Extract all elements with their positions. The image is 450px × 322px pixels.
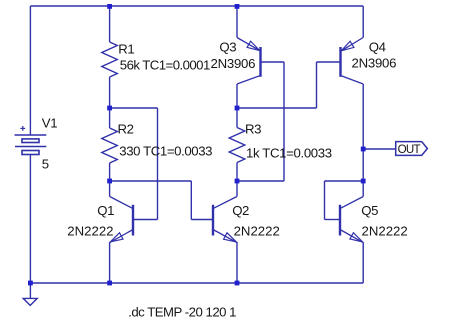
- battery plus sign: [20, 127, 25, 129]
- wire Q3 emitter stem: [236, 6, 238, 38]
- wire top rail: [30, 5, 363, 7]
- wire ground stem: [29, 283, 31, 298]
- wire Q2 emitter: [236, 243, 238, 283]
- svg-text:2N2222: 2N2222: [67, 224, 113, 239]
- node R3-bottom: [235, 179, 240, 184]
- wire node R1-R2 to Q1 base riser: [110, 107, 158, 109]
- svg-text:Q5: Q5: [361, 203, 378, 218]
- resistor R2: [109, 108, 111, 128]
- wire Q1 emitter: [109, 243, 111, 283]
- svg-text:Q4: Q4: [369, 39, 386, 54]
- svg-text:1k TC1=0.0033: 1k TC1=0.0033: [246, 146, 332, 161]
- ground: [23, 298, 37, 305]
- svg-text:R2: R2: [118, 122, 134, 137]
- node Q2e-rail: [235, 281, 240, 286]
- wire Q1 collector: [109, 181, 111, 197]
- wire Q4 collector: [362, 84, 364, 149]
- wire Q5 collector: [362, 181, 364, 197]
- wire Q5 emitter: [362, 243, 364, 283]
- node Q1e-rail: [107, 281, 112, 286]
- wire bottom rail: [30, 282, 363, 284]
- svg-text:OUT: OUT: [398, 143, 421, 156]
- node top-R1: [107, 4, 112, 9]
- svg-text:Q1: Q1: [97, 203, 114, 218]
- battery V1: [15, 134, 47, 136]
- svg-text:R1: R1: [118, 42, 134, 57]
- svg-text:330 TC1=0.0033: 330 TC1=0.0033: [119, 144, 212, 159]
- wire to OUT flag: [363, 148, 396, 150]
- svg-text:2N3906: 2N3906: [352, 56, 397, 71]
- svg-text:5: 5: [42, 157, 49, 172]
- wire node R2-bottom to Q2 base riser: [110, 180, 192, 182]
- wire left column bottom: [29, 155, 31, 284]
- resistor R3: [236, 108, 238, 128]
- transistor Q2 (npn): [212, 205, 214, 236]
- node R1-R2: [107, 106, 112, 111]
- wire left column top: [29, 6, 31, 135]
- wire Q2 collector: [236, 181, 238, 197]
- svg-text:2N2222: 2N2222: [362, 224, 408, 239]
- node OUT-T: [361, 147, 366, 152]
- svg-text:56k TC1=0.0001: 56k TC1=0.0001: [120, 58, 210, 73]
- transistor Q1 (npn, mirrored): [132, 205, 134, 236]
- svg-text:R3: R3: [245, 122, 261, 137]
- node gnd-T: [28, 281, 33, 286]
- node top-Q3: [235, 4, 240, 9]
- wire Q5 base: [325, 180, 364, 182]
- svg-text:V1: V1: [42, 116, 57, 131]
- node Q5base-T: [361, 179, 366, 184]
- wire Q4 base: [317, 61, 341, 63]
- node R3-top: [235, 106, 240, 111]
- wire Q3 collector: [236, 84, 238, 108]
- resistor R1: [109, 6, 111, 42]
- wire right column mid: [362, 149, 364, 181]
- node OUT flag: [396, 142, 428, 156]
- svg-text:.dc TEMP -20 120 1: .dc TEMP -20 120 1: [128, 305, 236, 320]
- svg-text:Q3: Q3: [219, 39, 236, 54]
- svg-text:2N3906: 2N3906: [211, 56, 256, 71]
- svg-text:Q2: Q2: [232, 203, 249, 218]
- wire Q4 emitter stem: [362, 6, 364, 38]
- wire Q3 base: [261, 61, 285, 63]
- svg-text:2N2222: 2N2222: [234, 224, 280, 239]
- node R2-Q1: [107, 179, 112, 184]
